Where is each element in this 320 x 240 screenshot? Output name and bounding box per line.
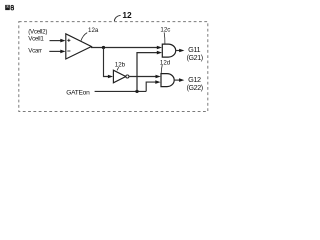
svg-text:(G22): (G22) bbox=[187, 84, 203, 92]
svg-text:Vcarr: Vcarr bbox=[28, 47, 42, 54]
svg-text:GATEon: GATEon bbox=[66, 89, 90, 96]
svg-text:12d: 12d bbox=[160, 59, 171, 66]
svg-text:12c: 12c bbox=[160, 27, 170, 34]
svg-text:(Vcell2): (Vcell2) bbox=[28, 29, 47, 36]
svg-text:Vcell1: Vcell1 bbox=[28, 36, 44, 43]
svg-text:12b: 12b bbox=[115, 61, 126, 68]
svg-text:12: 12 bbox=[122, 10, 132, 20]
svg-text:12a: 12a bbox=[88, 27, 99, 34]
svg-text:(G21): (G21) bbox=[187, 54, 203, 62]
